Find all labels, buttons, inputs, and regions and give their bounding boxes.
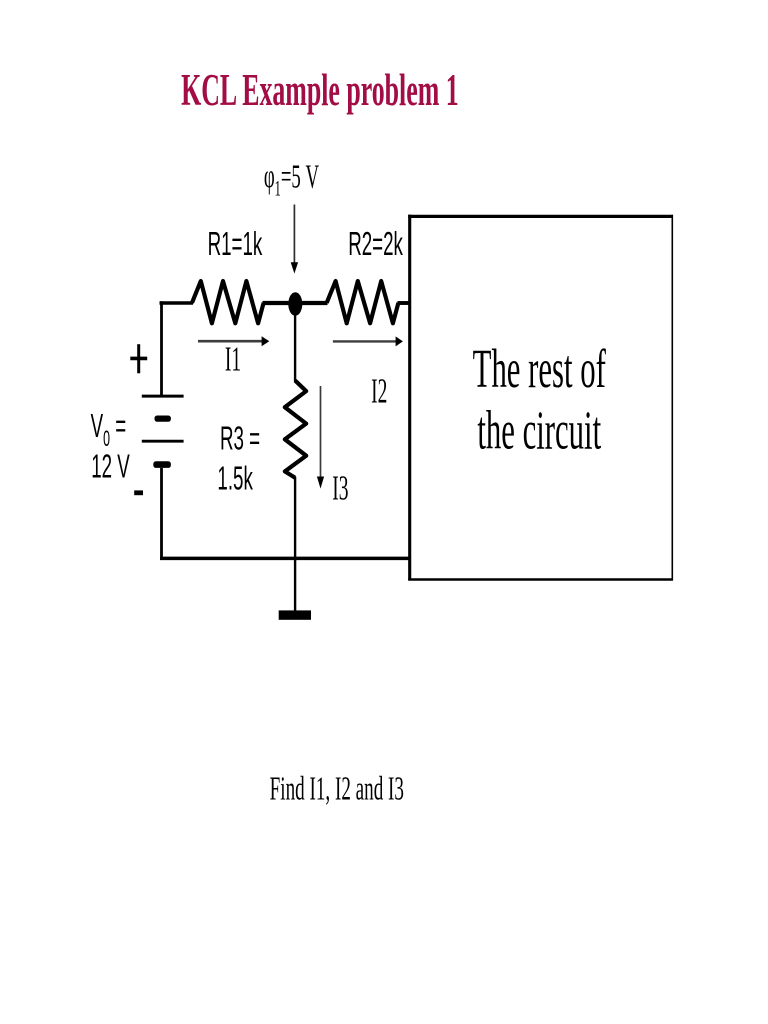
box: bottom edge — [408, 578, 673, 581]
box: right edge — [671, 215, 673, 581]
svg-text:1.5k: 1.5k — [217, 460, 253, 497]
wire: left vertical from battery bottom to bottom rail — [160, 468, 163, 560]
ground — [279, 610, 311, 619]
resistor R2 (zigzag) — [327, 281, 399, 323]
svg-text:I2: I2 — [371, 373, 387, 411]
resistor R1 (zigzag) — [192, 281, 264, 323]
svg-text:the circuit: the circuit — [477, 399, 601, 461]
wire: vertical from R3 through bottom rail to ground — [294, 477, 296, 611]
box: top edge — [408, 215, 673, 218]
svg-text:I1: I1 — [225, 341, 241, 379]
svg-text:I3: I3 — [332, 470, 348, 508]
svg-text:Find I1, I2 and I3: Find I1, I2 and I3 — [270, 769, 404, 807]
box: the rest of the circuit (left edge) — [408, 215, 411, 581]
battery V0: short thick plate 1 — [155, 416, 171, 422]
wire: vertical from node A down to R3 — [294, 304, 296, 382]
arrow: phi1 pointer down to node A — [293, 205, 295, 264]
svg-text:φ1=5 V: φ1=5 V — [264, 158, 320, 201]
text group (horizontally squeezed like source slide) — [91, 66, 606, 807]
minus sign of battery V0 — [134, 490, 143, 495]
arrow I2 (current out of node) — [333, 340, 396, 342]
wire: left vertical from corner to battery top plate — [160, 301, 163, 395]
svg-text:The rest of: The rest of — [473, 338, 606, 400]
svg-text:R2=2k: R2=2k — [348, 226, 403, 263]
node A (junction dot) — [288, 292, 302, 316]
wire: bottom horizontal rail — [160, 557, 411, 561]
plus sign of battery V0 — [137, 344, 140, 373]
resistor R3 (vertical zigzag) — [285, 381, 306, 478]
svg-text:V0 =: V0 = — [91, 408, 127, 451]
wire: stub from R2 to box — [398, 301, 411, 305]
wire: horizontal segment from R1 through node A to R2 — [263, 301, 328, 305]
wire: top horizontal segment left of R1 — [160, 301, 194, 305]
arrow I3 (current down through R3) — [320, 386, 322, 477]
battery V0: long plate 1 — [142, 395, 184, 398]
arrow I1 (current into node) — [198, 340, 262, 343]
svg-text:KCL Example problem 1: KCL Example problem 1 — [181, 66, 459, 117]
svg-text:R1=1k: R1=1k — [208, 226, 263, 263]
svg-text:12 V: 12 V — [91, 448, 130, 485]
battery V0: long plate 2 — [142, 440, 184, 443]
svg-text:R3 =: R3 = — [220, 420, 260, 457]
battery V0: short thick plate 2 — [153, 461, 171, 468]
